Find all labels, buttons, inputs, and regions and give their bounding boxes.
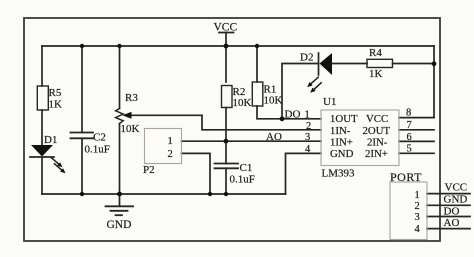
potentiometer R3 zigzag: [116, 109, 124, 124]
capacitor C1: [215, 164, 239, 169]
R3 wiper arrow: [123, 112, 203, 119]
node rail-P2: [208, 192, 212, 196]
svg-text:0.1uF: 0.1uF: [85, 144, 110, 156]
wire PORT pin1 to VCC label: [427, 193, 470, 195]
node rail-VCC: [224, 44, 229, 49]
svg-text:7: 7: [407, 120, 412, 131]
svg-text:U1: U1: [323, 96, 336, 108]
svg-text:1OUT: 1OUT: [330, 113, 358, 125]
svg-text:1K: 1K: [369, 68, 383, 80]
VCC symbol: [219, 33, 234, 47]
wire P2 pin2 to bottom rail: [182, 153, 211, 194]
ground symbol GND: [106, 194, 134, 215]
wire R5 to D1: [41, 110, 43, 145]
svg-text:10K: 10K: [233, 97, 252, 109]
node DO junction: [280, 116, 285, 121]
node rail-R1: [255, 44, 259, 48]
node rail-C2 bottom: [80, 192, 84, 196]
svg-text:1K: 1K: [49, 99, 63, 111]
component boxes: [145, 110, 428, 240]
svg-text:5: 5: [407, 144, 412, 155]
svg-text:4: 4: [415, 224, 421, 235]
svg-text:4: 4: [305, 144, 311, 155]
svg-text:1: 1: [415, 190, 420, 201]
svg-text:GND: GND: [330, 148, 354, 160]
svg-text:PORT: PORT: [390, 170, 422, 184]
wire U1 pin5 stub: [399, 152, 434, 154]
U1 pin names: [330, 113, 390, 160]
svg-text:1IN-: 1IN-: [330, 125, 351, 137]
wire VCC top rail: [42, 45, 434, 47]
svg-text:2IN-: 2IN-: [367, 136, 388, 148]
wire VCC right drop to R4 and pin8: [433, 46, 435, 118]
wire VCC stub to R2: [225, 46, 227, 82]
svg-text:6: 6: [407, 132, 412, 143]
wire D1 to bottom rail: [41, 157, 43, 194]
svg-text:VCC: VCC: [445, 182, 468, 194]
wire R3 wiper corner to U1 pin2: [202, 115, 321, 130]
svg-text:1: 1: [168, 136, 173, 147]
svg-text:LM393: LM393: [322, 168, 356, 180]
wire R1 to DO line: [257, 106, 321, 119]
svg-text:VCC: VCC: [214, 22, 238, 34]
resistor R2: [222, 86, 233, 108]
node rail-C1: [224, 192, 228, 196]
wire PORT pin2 to GND label: [427, 204, 470, 206]
wire AO line P2 pin1 to U1 pin3: [182, 140, 322, 142]
wire U1 pin6 stub: [399, 140, 434, 142]
resistor R1: [252, 82, 262, 106]
svg-text:GND: GND: [107, 219, 132, 231]
wire R4 to VCC drop: [393, 63, 435, 65]
svg-text:R3: R3: [125, 92, 138, 104]
wire C1 to bottom rail: [225, 168, 227, 194]
wire PORT pin3 to DO label: [427, 216, 470, 218]
node rail-R3: [117, 44, 121, 48]
wire U1 pin7 stub: [399, 129, 434, 131]
wire DO node up to D2: [282, 64, 319, 119]
svg-text:D1: D1: [44, 134, 57, 146]
svg-text:1: 1: [305, 110, 310, 121]
svg-text:C1: C1: [240, 162, 253, 174]
svg-text:0.1uF: 0.1uF: [230, 174, 255, 186]
op-amp U1 box: [321, 110, 399, 166]
svg-text:2: 2: [415, 201, 420, 212]
wire left branch top (rail to R5): [41, 46, 43, 86]
resistor R5: [37, 86, 48, 110]
wire R3 branch upper: [119, 46, 121, 109]
svg-text:10K: 10K: [121, 123, 140, 135]
svg-text:3: 3: [415, 212, 420, 223]
svg-text:R5: R5: [49, 87, 62, 99]
wire C2 to bottom rail: [81, 138, 83, 194]
wire U1 pin8 to VCC: [399, 117, 434, 119]
svg-text:GND: GND: [444, 194, 468, 206]
svg-text:1IN+: 1IN+: [330, 136, 353, 148]
capacitor C2: [71, 133, 94, 139]
node AO junction: [224, 139, 229, 144]
LED D1: [30, 145, 66, 173]
wire PORT pin4 to AO label: [427, 228, 470, 230]
svg-text:3: 3: [305, 132, 310, 143]
svg-text:2: 2: [306, 121, 311, 132]
svg-text:C2: C2: [93, 132, 106, 144]
node rail-GND: [117, 192, 122, 197]
connector P2 box: [145, 129, 182, 164]
svg-text:8: 8: [406, 108, 411, 119]
node R4-VCC: [432, 61, 437, 66]
svg-text:VCC: VCC: [366, 113, 388, 125]
wire R2 down to AO node: [225, 108, 227, 164]
svg-text:2OUT: 2OUT: [363, 125, 391, 137]
wire bottom GND rail: [42, 193, 286, 195]
node rail-C2: [80, 44, 84, 48]
svg-text:D2: D2: [300, 52, 313, 64]
svg-text:AO: AO: [266, 131, 282, 143]
connector PORT box: [390, 182, 427, 240]
wire U1 pin4 to bottom rail: [286, 153, 322, 194]
wire R1 branch upper: [256, 46, 258, 82]
wire R3 to bottom rail: [119, 124, 121, 195]
svg-text:2IN+: 2IN+: [365, 148, 388, 160]
wire D2 to R4: [332, 63, 367, 65]
svg-text:AO: AO: [444, 217, 460, 229]
svg-text:DO: DO: [285, 109, 301, 121]
svg-text:10K: 10K: [264, 95, 283, 107]
resistor R4: [367, 59, 393, 67]
svg-text:2: 2: [168, 149, 173, 160]
svg-text:DO: DO: [444, 206, 460, 218]
svg-text:R4: R4: [369, 47, 382, 59]
wire C2 branch upper: [81, 46, 83, 133]
svg-text:P2: P2: [143, 164, 155, 176]
LED D2: [307, 53, 332, 93]
